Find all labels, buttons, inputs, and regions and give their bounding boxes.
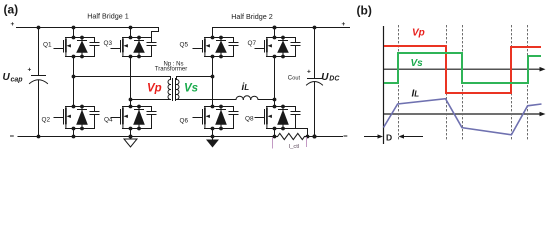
svg-text:+: +	[307, 69, 311, 76]
svg-text:I_ctl: I_ctl	[289, 144, 300, 150]
svg-text:Vp: Vp	[412, 28, 425, 39]
svg-text:(b): (b)	[357, 4, 372, 18]
svg-text:Q7: Q7	[248, 40, 257, 47]
svg-text:Vs: Vs	[184, 82, 198, 94]
svg-text:+: +	[11, 21, 15, 28]
svg-text:Q1: Q1	[43, 41, 52, 48]
svg-text:+: +	[342, 21, 346, 28]
svg-text:D: D	[386, 133, 392, 143]
svg-text:DC: DC	[329, 75, 340, 82]
svg-text:out: out	[292, 75, 300, 81]
svg-text:U: U	[3, 72, 11, 83]
svg-text:Q5: Q5	[180, 42, 189, 49]
svg-text:Q8: Q8	[245, 116, 254, 123]
svg-text:Q6: Q6	[180, 118, 189, 125]
svg-text:cap: cap	[11, 76, 24, 83]
svg-text:Q2: Q2	[42, 116, 51, 123]
svg-text:iL: iL	[242, 82, 250, 93]
svg-text:Q3: Q3	[104, 40, 113, 47]
svg-text:(a): (a)	[4, 3, 19, 17]
svg-text:Half Bridge 1: Half Bridge 1	[87, 12, 129, 21]
svg-text:+: +	[28, 67, 32, 74]
svg-text:Vs: Vs	[411, 58, 424, 69]
svg-text:Transformer: Transformer	[155, 67, 187, 73]
svg-text:U: U	[321, 72, 329, 83]
svg-text:Q4: Q4	[104, 116, 113, 123]
svg-text:Half Bridge 2: Half Bridge 2	[231, 12, 273, 21]
svg-text:IL: IL	[412, 89, 420, 100]
svg-text:Vp: Vp	[147, 82, 162, 94]
